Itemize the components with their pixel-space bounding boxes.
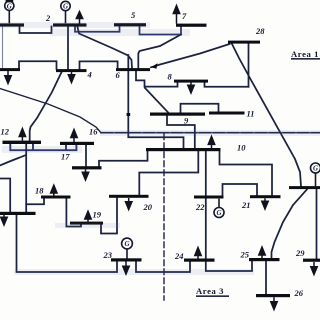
bus 12	[3, 141, 42, 144]
bus 20	[109, 195, 149, 198]
bus 17	[72, 166, 102, 169]
svg-text:7: 7	[182, 11, 187, 21]
bus 23	[111, 258, 142, 261]
svg-text:29: 29	[295, 248, 305, 258]
wire 2-4	[67, 27, 69, 70]
bus 21	[250, 195, 281, 198]
wire 6-8	[136, 71, 178, 86]
wire 9-11	[181, 104, 219, 113]
bus 27	[289, 186, 320, 189]
svg-text:6: 6	[116, 70, 121, 80]
wire 10-20	[139, 151, 198, 195]
svg-text:9: 9	[184, 116, 189, 126]
bus 15	[0, 212, 36, 215]
generator G27	[311, 163, 320, 173]
wire 6-10	[128, 55, 183, 148]
wire 21-22	[223, 184, 258, 196]
bus 6	[116, 68, 150, 71]
svg-text:23: 23	[103, 250, 113, 260]
wire 25-26	[265, 261, 267, 294]
load arrow bus 7 (up)	[176, 13, 178, 24]
svg-text:Area 3: Area 3	[196, 286, 224, 296]
wire 23-24	[136, 261, 190, 272]
svg-text:17: 17	[61, 152, 70, 162]
load arrow bus 12 (up)	[21, 136, 23, 141]
bus 11	[209, 112, 245, 115]
svg-text:8: 8	[168, 72, 173, 82]
wire 4-12	[30, 72, 62, 140]
bus 5	[114, 23, 146, 26]
svg-text:G: G	[7, 2, 12, 10]
svg-text:G: G	[124, 240, 129, 248]
underline Area 1	[291, 58, 320, 60]
wire 6-7	[138, 35, 181, 68]
area boundary diagonal	[0, 89, 101, 133]
bus 16	[60, 142, 94, 145]
bus 4	[56, 69, 87, 72]
wire 12-15	[25, 144, 27, 212]
svg-text:25: 25	[240, 250, 250, 260]
bus 7	[176, 24, 207, 27]
bus 1	[0, 23, 24, 26]
wire 15-23	[17, 215, 118, 272]
load arrow bus 25 (up)	[261, 255, 263, 259]
junction 6-28 arrowhead	[151, 63, 158, 69]
wire 8-28	[205, 83, 249, 87]
generator G1	[5, 1, 14, 10]
load arrow bus 19 (up)	[87, 219, 89, 222]
wire 3-4	[19, 61, 57, 69]
load arrow bus 21 (down)	[264, 198, 266, 202]
wire 19-20	[101, 198, 117, 234]
wire 28-27	[232, 44, 301, 186]
load arrow bus 4 (down)	[71, 72, 73, 76]
svg-text:24: 24	[174, 251, 184, 261]
generator G22	[214, 208, 224, 218]
load arrow bus 15 (down)	[3, 215, 5, 218]
svg-text:G: G	[216, 209, 221, 217]
bus 29	[303, 259, 320, 262]
load arrow bus 17 (down)	[85, 170, 87, 174]
bus 3	[0, 68, 20, 71]
svg-text:4: 4	[87, 70, 92, 80]
load arrow bus 10 (up)	[211, 144, 213, 148]
wire 6-28	[151, 44, 230, 67]
svg-text:20: 20	[143, 202, 153, 212]
svg-text:5: 5	[131, 10, 136, 20]
area boundary horizontal	[101, 132, 320, 134]
svg-text:26: 26	[294, 288, 304, 298]
svg-text:10: 10	[237, 143, 246, 153]
svg-text:18: 18	[35, 186, 44, 196]
svg-text:G: G	[63, 3, 68, 11]
svg-text:Area 1: Area 1	[291, 49, 319, 59]
generator G23	[122, 238, 133, 249]
bus 10	[146, 148, 221, 151]
load arrow bus 29 (down)	[313, 262, 315, 267]
generator G2	[61, 1, 70, 10]
junction bus9-line6-10	[127, 113, 131, 116]
wire 13-12	[0, 155, 26, 166]
svg-text:16: 16	[89, 127, 98, 137]
load arrow bus 26 (down)	[273, 297, 275, 302]
load arrow bus 24 (up)	[197, 255, 199, 259]
svg-text:19: 19	[93, 210, 102, 220]
wire 4-6	[80, 61, 118, 69]
load arrow bus 18 (up)	[53, 193, 55, 196]
wire 2-6	[78, 27, 133, 68]
wire 5-7	[140, 26, 182, 34]
underline Area 3	[196, 295, 229, 297]
svg-text:12: 12	[1, 127, 10, 137]
wire 25-27	[272, 189, 308, 258]
bus 22	[194, 196, 224, 199]
area boundary vertical	[163, 134, 165, 300]
bus 8	[174, 80, 208, 83]
bus 28	[228, 41, 260, 44]
wire 18-19	[66, 198, 81, 226]
load arrow bus 20 (down)	[128, 198, 130, 203]
wire 12-14 corridor	[10, 144, 76, 151]
load arrow bus 3 (down)	[7, 71, 9, 77]
bus 19	[70, 222, 103, 225]
bus 25	[249, 258, 280, 261]
load arrow bus 16 (up)	[73, 137, 75, 142]
wire 1-3	[2, 27, 4, 69]
wire 16-17	[85, 145, 87, 166]
bus 9	[150, 113, 205, 116]
wire 10-17	[99, 151, 148, 166]
G1 scan cap	[6, 0, 14, 2]
wire 15-18	[26, 198, 44, 204]
bus 24	[184, 259, 215, 262]
wire 14-15	[0, 179, 10, 213]
svg-text:21: 21	[241, 200, 251, 210]
svg-text:G: G	[313, 165, 318, 173]
load arrow bus 23 (down)	[125, 262, 127, 267]
wire 27-29	[316, 189, 318, 258]
svg-text:11: 11	[247, 109, 255, 119]
load arrow bus 8 (down)	[190, 83, 192, 87]
svg-text:28: 28	[255, 26, 265, 36]
svg-text:22: 22	[195, 202, 205, 212]
wire 2-5	[75, 26, 120, 32]
bus 18	[41, 196, 71, 199]
svg-text:2: 2	[45, 13, 51, 23]
bus 2	[53, 23, 87, 26]
wire 1-2	[20, 27, 52, 34]
wire 10-22-24	[206, 151, 252, 271]
wire 9-10	[167, 116, 195, 148]
bus 26	[256, 294, 290, 297]
load arrow bus 2 (up)	[79, 18, 81, 24]
wire 10-21	[220, 151, 273, 195]
wire 6-9	[145, 88, 168, 112]
